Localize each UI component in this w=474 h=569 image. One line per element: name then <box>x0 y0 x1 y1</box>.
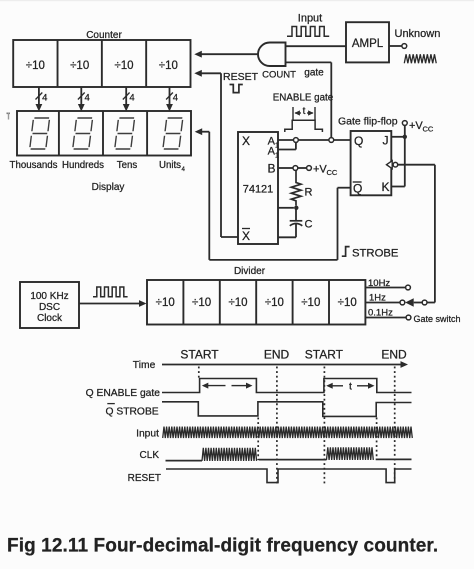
node circle on B line <box>293 166 298 171</box>
svg-text:÷10: ÷10 <box>228 297 247 309</box>
divider label <box>234 266 266 277</box>
svg-text:X: X <box>242 134 250 148</box>
svg-text:J: J <box>383 134 389 148</box>
time axis <box>162 361 408 368</box>
gate width arrows period 2 with t <box>326 380 374 392</box>
dotted line START1 <box>198 367 200 379</box>
svg-text:Thousands: Thousands <box>10 160 58 171</box>
svg-text:Time: Time <box>133 360 156 371</box>
enable pulse symbol <box>285 120 323 132</box>
clock oscillator box <box>20 282 79 328</box>
svg-text:+V: +V <box>409 120 423 132</box>
wire: Vcc down to K <box>391 125 405 186</box>
input continuous waveform <box>163 427 413 438</box>
wire: clock to divider, arrow <box>79 300 147 307</box>
svg-text:END: END <box>381 348 407 362</box>
svg-text:DSC: DSC <box>39 302 60 313</box>
node: A1 junction <box>294 138 299 143</box>
svg-text:÷10: ÷10 <box>114 60 133 72</box>
svg-text:4: 4 <box>173 93 178 104</box>
wire: AMPL to unknown terminal <box>389 45 402 47</box>
svg-text:Q STROBE: Q STROBE <box>105 407 158 418</box>
svg-text:Q: Q <box>354 134 363 148</box>
gate flip-flop box <box>351 131 392 195</box>
dotted line gate close 2 <box>376 418 378 460</box>
svg-text:Tens: Tens <box>117 160 138 171</box>
label COUNT <box>262 70 296 81</box>
label START 2 <box>305 348 344 362</box>
CLK burst 2 <box>327 447 374 460</box>
label R <box>305 187 313 199</box>
flip-flop clock edge marker <box>387 161 398 169</box>
resistor R <box>291 170 301 205</box>
Vcc terminal circle <box>402 121 407 126</box>
svg-text:Input: Input <box>298 13 322 25</box>
wire: 0.1Hz output <box>365 317 406 319</box>
svg-text:RESET: RESET <box>128 473 161 484</box>
dotted line END1 <box>276 367 278 485</box>
label +Vcc at B <box>313 164 338 178</box>
svg-text:RESET: RESET <box>223 71 259 83</box>
svg-text:1: 1 <box>275 153 279 160</box>
switch arm arrowhead <box>405 298 422 306</box>
label Unknown <box>395 28 441 40</box>
svg-text:Hundreds: Hundreds <box>62 160 104 171</box>
Q ENABLE waveform <box>162 379 412 393</box>
svg-text:CC: CC <box>327 168 338 177</box>
counter block label <box>86 30 122 41</box>
svg-text:Q: Q <box>353 182 362 196</box>
wire: second A1 pin <box>278 142 296 149</box>
svg-text:CC: CC <box>423 125 434 134</box>
clock square-wave symbol <box>93 287 128 297</box>
svg-text:÷10: ÷10 <box>70 60 89 72</box>
label gate <box>304 68 324 79</box>
label ENABLE gate <box>273 93 334 104</box>
node: R-C junction dot <box>294 206 298 210</box>
svg-text:X: X <box>242 229 250 243</box>
4-bit BCD bus arrows with /4 marks <box>36 87 178 112</box>
svg-text:B: B <box>267 162 275 176</box>
CLK waveform line 3 <box>376 458 412 460</box>
seven-segment digits <box>30 118 183 149</box>
svg-text:AMPL: AMPL <box>352 38 384 50</box>
faint page edge line <box>0 0 474 1</box>
svg-text:÷10: ÷10 <box>265 297 284 309</box>
svg-text:CLK: CLK <box>140 450 160 461</box>
label Gate switch <box>414 314 461 324</box>
wire: 74121 X-bar output to counter reset, arrow <box>194 70 238 237</box>
svg-text:C: C <box>305 219 313 231</box>
svg-text:÷10: ÷10 <box>26 60 45 72</box>
RESET waveform <box>166 469 412 483</box>
label END 1 <box>264 348 290 362</box>
label Q-bar STROBE <box>105 404 158 418</box>
node: gate branch junction <box>329 138 334 143</box>
wire: switch pole to clock line <box>427 302 435 304</box>
svg-text:÷10: ÷10 <box>156 297 175 309</box>
label CLK <box>140 450 160 461</box>
label END 2 <box>381 348 407 362</box>
wire: COUNT gate output to counter, arrow <box>194 51 258 58</box>
wire: strobe line to display latch, arrow <box>195 128 351 260</box>
unknown signal squiggle <box>404 54 436 63</box>
label 0.1Hz <box>368 308 393 319</box>
dotted line END2 <box>394 367 396 485</box>
digit weight labels <box>10 160 186 173</box>
svg-text:÷10: ÷10 <box>301 297 320 309</box>
svg-text:t: t <box>349 380 352 392</box>
0.1Hz terminal <box>406 315 411 320</box>
svg-text:Input: Input <box>136 428 159 439</box>
svg-text:END: END <box>264 348 290 362</box>
svg-text:START: START <box>305 348 344 362</box>
svg-text:100 KHz: 100 KHz <box>30 291 68 302</box>
svg-text:COUNT: COUNT <box>262 70 296 81</box>
label 1Hz <box>369 293 386 304</box>
gate width arrows period 1 <box>202 383 253 389</box>
wire: clock line to gate switch <box>398 165 435 303</box>
dotted line gate close 1 <box>257 418 259 461</box>
unknown input terminal <box>402 44 407 49</box>
svg-text:Gate switch: Gate switch <box>414 314 461 324</box>
input square-wave symbol <box>287 27 329 37</box>
capacitor C <box>290 221 303 226</box>
display label <box>92 182 125 193</box>
label Gate flip-flop <box>338 116 398 128</box>
switch pole terminal <box>422 300 427 305</box>
74121 pin labels <box>242 134 279 243</box>
label C <box>305 219 313 231</box>
svg-text:Gate flip-flop: Gate flip-flop <box>338 116 398 128</box>
wire: ENABLE line A1 to flip-flop Q <box>278 139 351 141</box>
svg-text:ENABLE gate: ENABLE gate <box>273 93 334 104</box>
svg-text:STROBE: STROBE <box>352 248 399 260</box>
one-shot 74121 box <box>238 132 278 244</box>
svg-text:Unknown: Unknown <box>395 28 441 40</box>
svg-text:74121: 74121 <box>243 184 274 196</box>
label START 1 <box>180 348 219 362</box>
Vcc terminal on B line <box>307 166 312 171</box>
svg-text:÷10: ÷10 <box>159 60 178 72</box>
svg-text:Units: Units <box>159 160 181 171</box>
label RESET <box>223 71 259 83</box>
svg-text:+V: +V <box>313 164 327 176</box>
svg-text:t: t <box>303 106 306 117</box>
svg-text:Display: Display <box>92 182 125 193</box>
enable width measure bars and t <box>293 106 315 120</box>
svg-text:4: 4 <box>129 93 134 104</box>
Q-bar STROBE waveform <box>162 402 412 417</box>
figure caption <box>7 536 438 557</box>
CLK waveform line 1 <box>166 460 203 462</box>
wire between B circles <box>298 167 307 169</box>
svg-text:÷10: ÷10 <box>338 297 357 309</box>
label Q ENABLE gate <box>86 388 161 399</box>
label Input (timing) <box>136 428 159 439</box>
label Input <box>298 13 322 25</box>
svg-text:R: R <box>305 187 313 199</box>
dotted line START2 <box>323 367 325 485</box>
node: J-Vcc junction dot <box>403 135 407 139</box>
svg-text:Clock: Clock <box>37 313 63 324</box>
amplifier AMPL <box>346 22 389 62</box>
strobe edge symbol <box>342 247 350 257</box>
label Time <box>133 360 156 371</box>
svg-text:4: 4 <box>42 93 47 104</box>
wire: AMPL output to gate input <box>286 45 347 47</box>
1Hz terminal <box>400 300 405 305</box>
flip-flop pin labels <box>353 134 390 196</box>
AND gate (COUNT gate) <box>258 43 286 67</box>
svg-text:Divider: Divider <box>234 266 266 277</box>
reset pulse symbol <box>230 85 243 93</box>
svg-text:1: 1 <box>275 143 279 150</box>
svg-text:Fig 12.11 Four-decimal-digit f: Fig 12.11 Four-decimal-digit frequency c… <box>7 536 438 557</box>
wire: 1Hz output <box>365 302 400 304</box>
svg-text:gate: gate <box>304 68 324 79</box>
svg-text:START: START <box>180 348 219 362</box>
wire: junction down to capacitor <box>295 208 297 220</box>
label RESET (timing) <box>128 473 161 484</box>
label STROBE <box>352 248 399 260</box>
svg-text:K: K <box>381 180 389 194</box>
small scan artifact <box>7 113 11 120</box>
counter: four divide-by-10 decade counters <box>13 40 190 87</box>
svg-text:÷10: ÷10 <box>192 297 211 309</box>
wire: box to R-C junction <box>278 207 294 209</box>
display: four 7-segment digit cells <box>17 111 191 156</box>
wire: B pin to Vcc link <box>278 167 293 169</box>
CLK burst 1 <box>202 448 257 461</box>
svg-text:Q ENABLE gate: Q ENABLE gate <box>86 388 161 399</box>
wire: 10Hz output <box>365 287 405 289</box>
wire: capacitor to box <box>278 224 296 238</box>
svg-text:4: 4 <box>85 93 90 104</box>
label 10Hz <box>368 278 390 289</box>
divider: six divide-by-10 stages <box>147 280 365 325</box>
wire: gate enable input down to ENABLE node <box>286 62 332 138</box>
10Hz terminal <box>406 285 411 290</box>
CLK waveform line 2 <box>259 459 327 461</box>
label +Vcc at flip-flop <box>409 120 434 134</box>
wire: J to Vcc <box>391 136 405 138</box>
